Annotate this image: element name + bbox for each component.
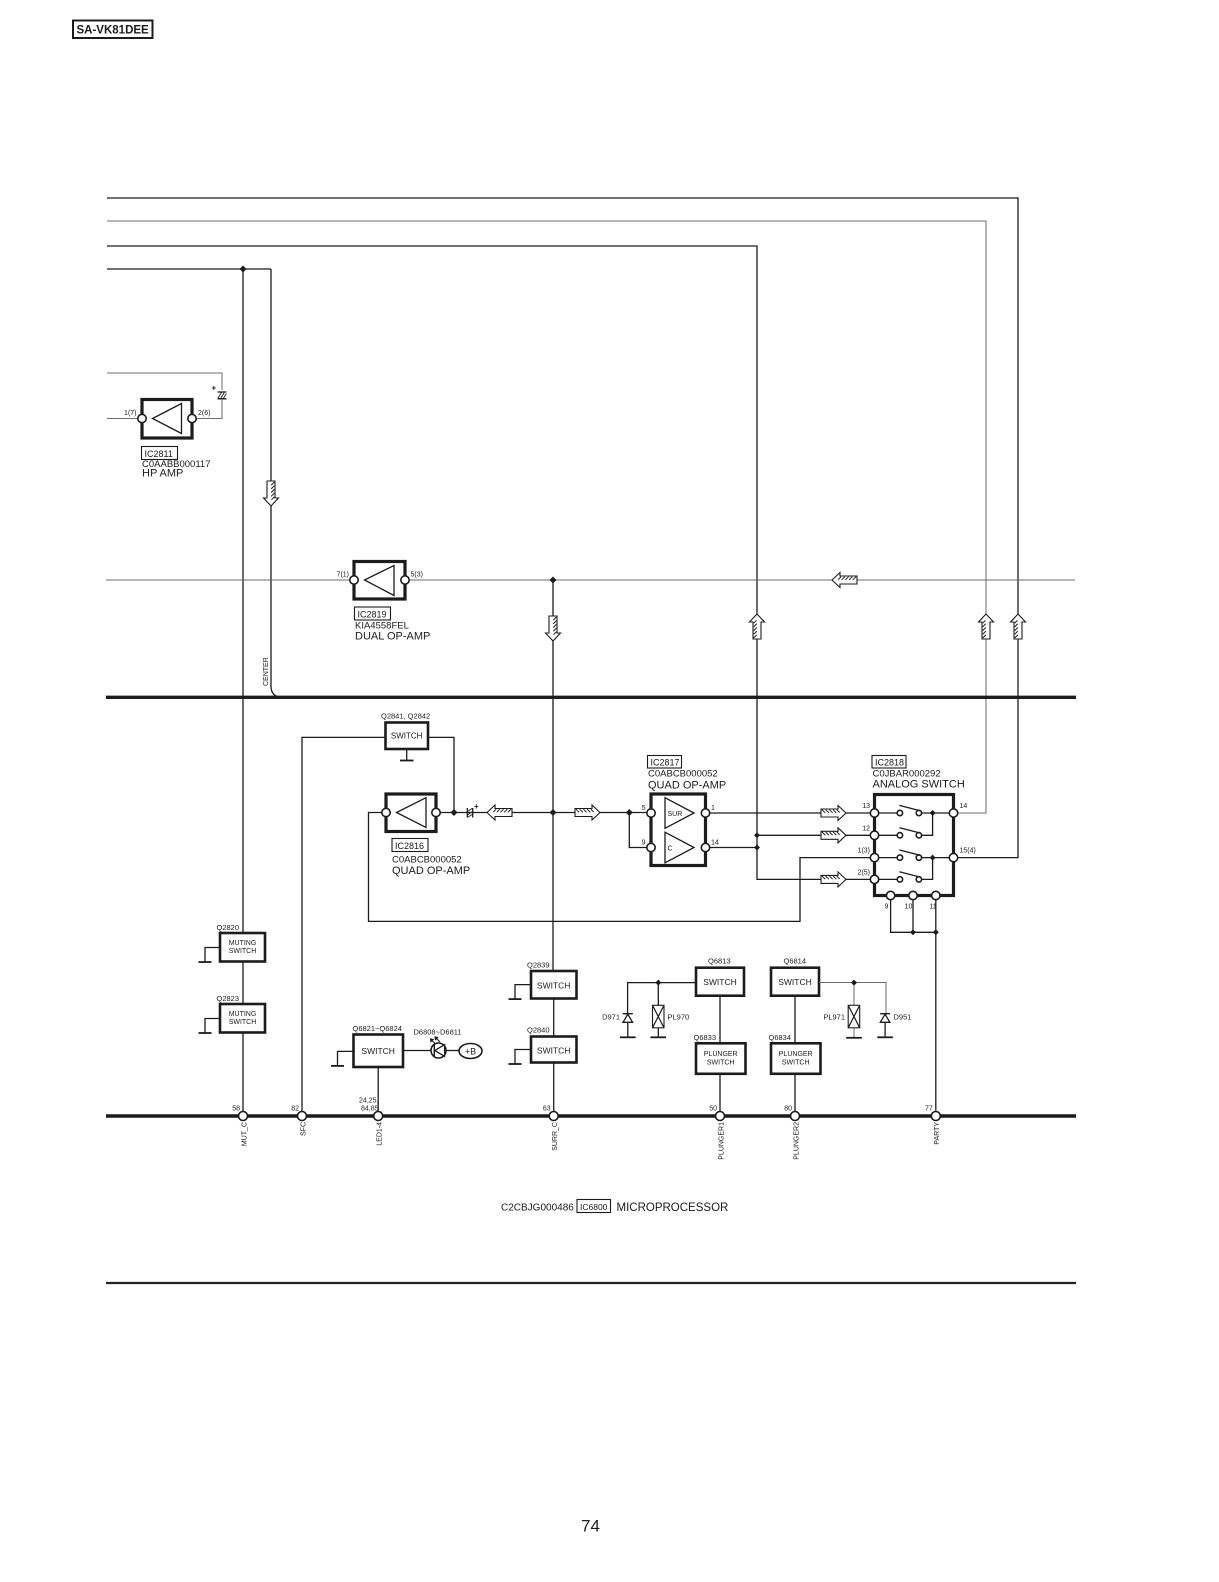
svg-text:2(6): 2(6) (198, 410, 210, 417)
svg-text:SFC: SFC (300, 1122, 307, 1136)
svg-text:9: 9 (885, 904, 889, 911)
svg-text:IC2819: IC2819 (358, 610, 387, 620)
svg-text:63: 63 (543, 1106, 551, 1113)
plunger switch Q6834 (771, 1043, 821, 1074)
LED D6808~D6811 (430, 1036, 446, 1058)
wire HP amp input feed (gray) (107, 373, 222, 390)
node junction pin11 common (933, 929, 939, 935)
node junction IC2819 output / SURR_C vertical (550, 577, 557, 584)
svg-text:PL970: PL970 (668, 1013, 690, 1022)
svg-text:D6808~D6811: D6808~D6811 (414, 1028, 462, 1037)
switch cell pin13-14 (879, 805, 950, 815)
op-amp IC2816 (382, 794, 440, 832)
node junction PL971 branch (851, 980, 857, 986)
node LED1-4 bus terminal (374, 1112, 383, 1121)
svg-text:50: 50 (709, 1106, 717, 1113)
wire IC2817 pin14 to x=757 vertical (710, 847, 757, 849)
svg-text:C: C (668, 845, 673, 852)
header model label SA-VK81DEE (73, 21, 153, 39)
svg-text:1(3): 1(3) (858, 848, 870, 855)
svg-text:C0ABCB000052: C0ABCB000052 (392, 855, 462, 866)
junction on x=757 at pin12 branch (754, 832, 760, 838)
node junction sw1/sw2 common (930, 810, 936, 816)
svg-text:1(7): 1(7) (124, 410, 136, 417)
label IC6800 (577, 1200, 611, 1213)
switch Q2840 (531, 1037, 577, 1063)
wire IC2819 output line (gray) (106, 579, 1075, 581)
switch Q6821~Q6824 (354, 1035, 404, 1068)
wire IC2818 pins 9,10,11 to common (891, 900, 936, 933)
arrow right into IC2818 pin 2(5) (821, 872, 846, 887)
wire IC2811 pin 1(7) input (gray) (107, 418, 138, 420)
label IC2819 (355, 607, 391, 620)
svg-text:SWITCH: SWITCH (537, 1046, 571, 1056)
wire switch to LED (403, 1050, 431, 1052)
svg-text:C0ABCB000052: C0ABCB000052 (648, 769, 718, 780)
switch cell pin12 (879, 813, 933, 838)
ground at Q2823 (199, 1019, 222, 1034)
svg-text:MICROPROCESSOR: MICROPROCESSOR (617, 1202, 729, 1214)
wire Q6821 switch to bus (LED1-4) (377, 1067, 379, 1112)
svg-text:PARTY: PARTY (934, 1122, 941, 1145)
IC2818 pin circles (870, 809, 957, 900)
wire branch to IC2817 pin 9 (629, 813, 647, 848)
svg-text:SWITCH: SWITCH (707, 1059, 735, 1066)
wire LED to +B (446, 1050, 459, 1052)
svg-text:PLUNGER1: PLUNGER1 (718, 1122, 725, 1160)
wire Q2840 to bus (SURR_C) (553, 1063, 555, 1112)
svg-text:PLUNGER: PLUNGER (704, 1051, 738, 1058)
wire SFC net: bus up to Q2841 switch input (302, 737, 386, 1111)
svg-text:77: 77 (925, 1106, 933, 1113)
svg-text:SWITCH: SWITCH (391, 732, 423, 741)
svg-text:SUR: SUR (668, 811, 683, 818)
svg-text:SWITCH: SWITCH (537, 981, 571, 991)
arrow right on analog line (575, 805, 600, 820)
arrow up on x=757 line (750, 614, 765, 639)
wire Q6833 to bus (PLUNGER1) (719, 1074, 721, 1112)
op-amp IC2817 QUAD OP-AMP (647, 794, 710, 866)
svg-text:SWITCH: SWITCH (229, 1019, 257, 1026)
node junction analog line / pin 9 branch (626, 809, 633, 816)
svg-text:SWITCH: SWITCH (229, 948, 257, 955)
node junction PL970 branch (655, 980, 661, 986)
svg-text:D971: D971 (602, 1013, 620, 1022)
wire Q2820 to Q2823 (242, 962, 244, 1005)
plunger coil PL970 (651, 1005, 667, 1037)
svg-text:12: 12 (862, 825, 870, 832)
wire PARTY vertical to bus (935, 900, 937, 1112)
plunger coil PL971 (846, 1005, 862, 1038)
capacitor (polarized, unlabeled) at IC2811 output (212, 384, 227, 399)
svg-text:PL971: PL971 (823, 1013, 845, 1022)
svg-text:HP AMP: HP AMP (142, 468, 183, 480)
node SFC bus terminal (298, 1112, 307, 1121)
switch Q6813 (696, 968, 744, 996)
wire top line 1 to IC2818 pin 15(4) (107, 198, 1018, 858)
svg-text:9: 9 (642, 840, 646, 847)
ground at Q2839 (509, 985, 532, 1000)
svg-text:Q6814: Q6814 (784, 957, 807, 966)
svg-text:IC2816: IC2816 (395, 841, 424, 851)
svg-text:QUAD OP-AMP: QUAD OP-AMP (648, 780, 726, 792)
svg-text:IC2818: IC2818 (875, 758, 904, 768)
svg-text:5(3): 5(3) (411, 572, 423, 579)
node junction switch drop / IC2816 output (451, 809, 458, 816)
diode D951 (877, 1014, 893, 1038)
bottom separator line (106, 1282, 1076, 1284)
svg-text:PLUNGER: PLUNGER (779, 1051, 813, 1058)
wire CENTER vertical with curve into bus (271, 269, 282, 697)
ground below Q2841/Q2842 (400, 749, 414, 761)
ground at Q2820 (199, 948, 222, 963)
wire Q6814 to Q6834 (794, 996, 796, 1044)
svg-text:Q2841, Q2842: Q2841, Q2842 (381, 712, 430, 721)
arrow down on SURR_C vertical (546, 616, 561, 641)
wire Q2839 to Q2840 (553, 999, 555, 1037)
svg-text:58: 58 (232, 1106, 240, 1113)
svg-text:SWITCH: SWITCH (703, 977, 737, 987)
ground at Q6821~Q6824 (331, 1051, 354, 1066)
svg-text:5: 5 (642, 805, 646, 812)
svg-text:7(1): 7(1) (337, 572, 349, 579)
switch Q2841/Q2842 (386, 723, 429, 750)
node junction sw3/sw4 common (930, 855, 936, 861)
diode D971 (620, 1014, 636, 1038)
svg-text:SWITCH: SWITCH (782, 1059, 810, 1066)
op-amp IC2819 (350, 562, 409, 600)
junction on x=757 at IC2817 pin14 line (754, 845, 760, 851)
svg-text:Q6813: Q6813 (708, 957, 731, 966)
node PARTY bus terminal (931, 1112, 940, 1121)
wire IC2816 feedback loop to IC2818 pin 1(3) (369, 813, 872, 922)
op-amp IC2811 HP AMP (138, 400, 196, 439)
svg-text:15(4): 15(4) (960, 848, 976, 855)
svg-text:10: 10 (905, 904, 913, 911)
arrow left on IC2819 output line (832, 573, 857, 588)
wire Q6814 right to PL971/D951 (gray) (819, 983, 886, 1013)
node junction line4 / MUT_C vertical (240, 266, 247, 273)
svg-text:IC2817: IC2817 (651, 758, 680, 768)
node PLUNGER2 bus terminal (791, 1112, 800, 1121)
wire Q2841 switch output down to analog net (428, 737, 454, 812)
arrow right into IC2818 pin 13 (821, 806, 846, 821)
arrow up on x=1018 line (1011, 614, 1026, 639)
bus separator thick line (106, 696, 1076, 699)
svg-text:MUTING: MUTING (229, 1011, 257, 1018)
svg-text:D951: D951 (894, 1013, 912, 1022)
wire IC2818 pin 12 branch (757, 834, 871, 836)
wire Q6813 left to D971/PL970 (628, 983, 696, 1013)
analog switch IC2818 (875, 795, 954, 896)
wire Q6834 to bus (PLUNGER2) (794, 1074, 796, 1112)
wire MUT_C vertical upper (242, 269, 244, 933)
svg-text:IC2811: IC2811 (145, 449, 173, 459)
capacitor (polarized, unlabeled) on analog line (467, 802, 479, 818)
node junction analog line / x=553 vertical (550, 809, 557, 816)
svg-text:SWITCH: SWITCH (361, 1046, 395, 1056)
svg-text:14: 14 (711, 840, 719, 847)
svg-text:Q6821~Q6824: Q6821~Q6824 (353, 1024, 402, 1033)
wire IC2816 output line to IC2817 pin 5 (440, 812, 647, 814)
switch Q6814 (771, 968, 819, 996)
wire top line 4 (107, 268, 271, 270)
label IC2811 (142, 447, 178, 460)
wire top line 3 to IC2818 via vertical x=757 (107, 246, 825, 879)
switch cell pin2(5) (879, 858, 933, 883)
svg-text:LED1-4: LED1-4 (377, 1122, 384, 1146)
svg-text:Q2839: Q2839 (527, 961, 550, 970)
svg-text:IC6800: IC6800 (580, 1202, 608, 1212)
svg-text:PLUNGER2: PLUNGER2 (793, 1122, 800, 1160)
svg-text:Q6833: Q6833 (694, 1033, 717, 1042)
wire segment from arrow to IC2818 pin 2(5) (846, 878, 871, 880)
svg-text:SURR_C: SURR_C (552, 1122, 559, 1151)
arrow left on analog line (487, 805, 512, 820)
power +B supply (459, 1044, 482, 1059)
muting switch Q2820 (220, 933, 265, 962)
label IC2818 (872, 756, 906, 769)
node PLUNGER1 bus terminal (716, 1112, 725, 1121)
svg-text:CENTER: CENTER (263, 657, 270, 686)
switch Q2839 (531, 971, 577, 999)
svg-text:C2CBJG000486: C2CBJG000486 (501, 1203, 574, 1214)
arrow up on x=986 line (979, 614, 994, 639)
plunger switch Q6833 (696, 1043, 746, 1074)
ground at Q2840 (509, 1050, 532, 1065)
microprocessor bus thick line (106, 1114, 1076, 1118)
label IC2817 (648, 756, 682, 769)
svg-text:DUAL OP-AMP: DUAL OP-AMP (355, 631, 430, 643)
svg-text:1: 1 (711, 805, 715, 812)
wire Q2823 to bus (MUT_C) (242, 1033, 244, 1112)
svg-text:+: + (212, 384, 217, 393)
svg-text:MUTING: MUTING (229, 940, 257, 947)
wire top line 2 (gray) to IC2818 pin 14 (107, 221, 986, 813)
svg-text:14: 14 (960, 803, 968, 810)
wire IC2817 pin1 to IC2818 pin13 (710, 812, 871, 814)
switch cell pin1(3)-15(4) (879, 850, 950, 860)
muting switch Q2823 (220, 1004, 265, 1033)
svg-text:SWITCH: SWITCH (778, 977, 812, 987)
label IC2816 (392, 839, 428, 852)
svg-text:+: + (474, 802, 479, 811)
svg-text:Q2820: Q2820 (217, 923, 240, 932)
wire capacitor to IC2811 pin 2(6) (gray) (196, 399, 222, 419)
node junction pin10 common (910, 929, 916, 935)
arrow right into IC2818 pin 12 (821, 828, 846, 843)
svg-text:24,25,: 24,25, (359, 1098, 379, 1105)
svg-text:MUT_C: MUT_C (241, 1122, 248, 1146)
svg-text:80: 80 (784, 1106, 792, 1113)
svg-text:ANALOG SWITCH: ANALOG SWITCH (873, 779, 965, 791)
svg-text:82: 82 (291, 1106, 299, 1113)
wire SURR_C vertical x=553 (552, 580, 554, 971)
svg-text:+B: +B (465, 1047, 476, 1057)
wire Q6813 to Q6833 (719, 996, 721, 1044)
arrow down on CENTER line (264, 481, 279, 506)
svg-text:74: 74 (581, 1517, 600, 1536)
svg-text:QUAD OP-AMP: QUAD OP-AMP (392, 865, 470, 877)
node MUT_C bus terminal (239, 1112, 248, 1121)
svg-text:Q2823: Q2823 (217, 994, 240, 1003)
svg-text:Q6834: Q6834 (769, 1033, 792, 1042)
node SURR_C bus terminal (549, 1112, 558, 1121)
svg-text:Q2840: Q2840 (527, 1026, 550, 1035)
svg-text:SA-VK81DEE: SA-VK81DEE (77, 25, 150, 37)
svg-text:2(5): 2(5) (858, 869, 870, 876)
svg-text:13: 13 (862, 803, 870, 810)
